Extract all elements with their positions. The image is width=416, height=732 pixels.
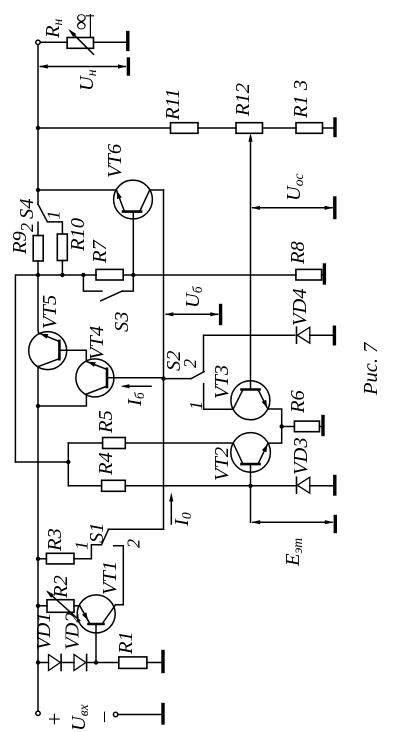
- svg-text:R4: R4: [95, 452, 117, 476]
- wire -Uvx down: [118, 714, 162, 716]
- wire R8 bottom: [322, 274, 323, 276]
- wire rail to R2: [38, 605, 47, 607]
- svg-text:2: 2: [180, 359, 200, 368]
- transistor VT3: [231, 381, 270, 420]
- svg-text:R11: R11: [162, 88, 184, 121]
- resistor R6: [294, 421, 319, 432]
- wire riser rail to VT4 collector: [38, 394, 86, 406]
- svg-text:R9: R9: [9, 231, 31, 255]
- resistor R2 variable: [47, 600, 74, 613]
- transistor VT2: [231, 433, 271, 486]
- diode VD1: [49, 655, 62, 671]
- wire VD1-VD2: [61, 662, 74, 664]
- svg-text:Rн: Rн: [42, 18, 65, 39]
- wire rail S4 to R11 to Rn: [37, 45, 39, 205]
- switch S3 upper stub: [83, 275, 102, 291]
- resistor R11: [171, 123, 199, 134]
- arrow R12 wiper: [248, 133, 252, 142]
- wire VT3 base wiper line: [250, 142, 252, 390]
- wire column457 R7 to R8: [123, 274, 296, 276]
- svg-text:VT6: VT6: [104, 143, 126, 178]
- wire R3 to S1 contact 1: [74, 545, 101, 559]
- svg-text:R6: R6: [287, 389, 309, 414]
- wire R6 bottom: [319, 426, 321, 428]
- wire R13 bottom: [323, 127, 334, 129]
- wire rail to R3: [38, 558, 46, 560]
- wire VT2 base left to Eet: [250, 486, 252, 522]
- ground bar R1: [161, 652, 164, 672]
- wire S1 pole down to bus: [108, 528, 163, 530]
- wire VT1 collector: [114, 546, 124, 605]
- node S4 pole junction: [36, 188, 40, 192]
- wire main bus y163: [163, 190, 165, 529]
- ground bar R13: [333, 119, 336, 136]
- wire VD4 bottom: [310, 334, 333, 336]
- svg-text:1: 1: [44, 211, 64, 220]
- ground bar VD4: [333, 327, 336, 344]
- node riser-R4R5 bus junction: [66, 460, 70, 464]
- ground bar Eet: [334, 517, 337, 532]
- arrow Uoc measure: [251, 206, 334, 210]
- wire R4R5 top bus: [67, 443, 69, 486]
- svg-text:I0: I0: [171, 512, 194, 527]
- transistor VT5: [29, 331, 67, 369]
- ground bar Uoc: [333, 198, 336, 218]
- svg-text:Iб: Iб: [124, 391, 147, 407]
- node column457-R10 junction: [60, 273, 64, 277]
- node R4col-VT2 base junction: [248, 484, 252, 488]
- wire VD1 column top: [38, 662, 49, 664]
- node rail-R11 junction: [36, 126, 40, 130]
- arrow Ib: [121, 384, 152, 388]
- wire rail to R11: [38, 127, 171, 129]
- ground bar R6: [321, 417, 324, 435]
- svg-text:VD4: VD4: [289, 288, 311, 326]
- svg-text:Uос: Uос: [283, 173, 306, 201]
- ground bar Rn: [126, 33, 129, 50]
- svg-text:1: 1: [72, 541, 92, 550]
- svg-text:Рис. 7: Рис. 7: [360, 342, 382, 396]
- svg-text:R1: R1: [115, 631, 137, 655]
- svg-text:VT5: VT5: [39, 295, 61, 329]
- svg-text:Uб: Uб: [182, 285, 205, 308]
- switch S4 blade: [38, 204, 47, 221]
- wire VT6 collector to bus: [150, 189, 164, 191]
- diode VD2: [74, 655, 87, 671]
- wire R4 column down through bus to VD3: [125, 485, 296, 487]
- switch S3 lower stub: [122, 275, 133, 291]
- bracket infinity mark: [86, 15, 93, 38]
- wire R6 top: [282, 426, 295, 428]
- resistor R13: [296, 123, 323, 134]
- diode VD3: [297, 477, 310, 493]
- transistor VT1: [77, 595, 115, 663]
- wire VT2 emitter down: [268, 427, 282, 444]
- svg-text:Uн: Uн: [76, 69, 99, 91]
- resistor R7: [96, 269, 123, 280]
- ground bar Un: [127, 59, 130, 74]
- arrow I0: [169, 493, 173, 525]
- svg-text:2: 2: [17, 223, 37, 232]
- resistor R12: [236, 123, 263, 134]
- svg-text:VT4: VT4: [86, 326, 108, 360]
- ground bar R8: [323, 265, 326, 283]
- svg-text:R10: R10: [67, 218, 89, 252]
- wire upper bypass line y15: [15, 275, 38, 462]
- wire S2 pole: [164, 378, 192, 380]
- wire R4 top: [68, 485, 101, 487]
- svg-text:R5: R5: [95, 410, 117, 434]
- svg-text:1: 1: [186, 401, 206, 410]
- wire column457 down to R7: [38, 274, 96, 276]
- wire VD3 bottom: [310, 485, 334, 487]
- wire VT4 emitter to VT5 base: [59, 350, 86, 361]
- svg-text:+: +: [42, 711, 67, 727]
- resistor R8: [296, 269, 322, 280]
- wire R5 top: [68, 442, 102, 444]
- svg-text:VT3: VT3: [211, 365, 233, 399]
- wire R2 to VT1 emitter: [74, 605, 80, 607]
- ground bar Ub: [219, 306, 222, 324]
- svg-text:S3: S3: [111, 312, 133, 333]
- svg-text:R2: R2: [50, 575, 72, 599]
- wire R5 column down to VT2 collector: [125, 442, 233, 444]
- wire S2 contact1 stub: [204, 384, 234, 410]
- wire rail VT5 emitter to R9 junction: [37, 261, 40, 333]
- switch S2 blade: [191, 372, 204, 379]
- wire R10 left to column457: [61, 261, 63, 276]
- svg-text:VD2: VD2: [62, 612, 84, 650]
- node emitters-R6 junction: [280, 424, 284, 428]
- node rail-R2 junction: [36, 604, 40, 608]
- arrow Un measure: [39, 64, 127, 68]
- wire R9 to S4 contact2 stub: [37, 222, 39, 235]
- resistor R3: [46, 553, 74, 564]
- svg-text:R1 3: R1 3: [290, 80, 312, 119]
- svg-text:R12: R12: [232, 83, 254, 117]
- resistor R5: [103, 438, 126, 449]
- terminal +Uvx: [36, 711, 40, 715]
- wire VT6 emitter riser: [38, 189, 116, 191]
- arrow R2 variable: [48, 592, 80, 620]
- svg-text:VD3: VD3: [290, 437, 312, 475]
- terminal -Uvx: [113, 712, 117, 716]
- node rail-R3 junction: [36, 557, 40, 561]
- switch S3 blade: [101, 291, 122, 301]
- wire R12 to R13: [263, 127, 297, 129]
- arrow Ub measure: [164, 312, 219, 316]
- wire S2 contact2 to VD4 column: [204, 335, 295, 371]
- node rail-column457 junction: [36, 273, 40, 277]
- resistor R10: [57, 234, 67, 261]
- svg-text:–: –: [92, 711, 114, 723]
- svg-text:S1: S1: [86, 523, 108, 544]
- transistor VT4: [76, 359, 164, 397]
- resistor Rn variable load: [67, 38, 93, 49]
- terminal Rn node: [36, 40, 40, 44]
- svg-text:Uвх: Uвх: [68, 704, 91, 731]
- diode VD4: [297, 327, 310, 343]
- wire S4 contact1 to R10: [48, 222, 63, 234]
- node rail-VD1 junction: [36, 660, 40, 664]
- wire VT3 emitter down: [268, 409, 282, 427]
- svg-text:VD1: VD1: [33, 612, 55, 650]
- ground bar VD3: [333, 477, 336, 495]
- svg-text:∞: ∞: [68, 14, 93, 30]
- wire R11 to R12: [198, 127, 236, 129]
- resistor R4: [102, 480, 126, 491]
- node bus-S2-VT4 base junction: [161, 376, 165, 380]
- node column457-S3 junction: [81, 273, 85, 277]
- wire Rn top: [40, 41, 67, 43]
- svg-text:2: 2: [124, 539, 144, 548]
- svg-text:R8: R8: [287, 240, 309, 265]
- transistor VT6: [114, 180, 153, 275]
- wire VD2 to R1: [87, 662, 119, 664]
- ground bar -Uvx: [161, 705, 164, 724]
- node VD2-R1-VT1 base junction: [94, 660, 98, 664]
- arrow Eet measure: [251, 520, 334, 524]
- resistor R9: [33, 236, 43, 262]
- svg-text:Eэт: Eэт: [282, 538, 305, 567]
- wire R1 bottom: [147, 662, 162, 664]
- wire Rn bottom: [94, 41, 127, 43]
- svg-text:R7: R7: [89, 239, 111, 264]
- wire top rail left part: [37, 366, 39, 711]
- resistor R1: [119, 657, 147, 669]
- arrow Rn variable: [70, 31, 93, 54]
- wire riser to R4R5 top bus: [15, 461, 68, 463]
- svg-text:VT2: VT2: [211, 447, 233, 481]
- svg-text:VT1: VT1: [99, 561, 121, 595]
- switch S1 blade: [102, 529, 109, 544]
- node rail-VT4 riser junction: [36, 404, 40, 408]
- svg-text:R3: R3: [44, 528, 66, 552]
- node column457-VT6 base junction: [131, 273, 135, 277]
- svg-text:S4: S4: [16, 199, 38, 220]
